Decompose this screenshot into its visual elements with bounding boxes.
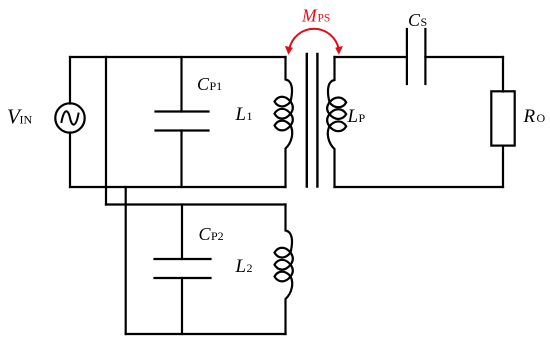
svg-text:M: M <box>301 6 318 26</box>
wire CP2 lower lead <box>181 278 183 334</box>
capacitor CP2 <box>155 259 211 278</box>
wire bottom bus of output loop <box>335 186 504 188</box>
inductor L2 spine <box>286 205 293 335</box>
wire top bus of primary loop <box>70 56 286 58</box>
svg-text:2: 2 <box>247 261 253 275</box>
inductor L2 petal 1 <box>275 248 291 258</box>
wire right vertical lower (RO bottom lead) <box>502 146 504 187</box>
inductor L1 petal 2 <box>275 109 291 119</box>
wire CP2 upper lead <box>181 205 183 260</box>
label LP <box>347 106 366 127</box>
wire CP1 lower lead <box>180 131 182 188</box>
label CP1 <box>197 74 222 94</box>
inductor LP (transformer secondary) spine <box>327 57 334 187</box>
voltage source VIN (AC) <box>55 103 84 132</box>
svg-text:1: 1 <box>247 109 253 123</box>
label L1 <box>235 104 253 125</box>
inductor LP petal 3 <box>330 121 347 131</box>
wire top bus of output loop left segment <box>335 56 407 58</box>
capacitor CP1 <box>156 112 209 131</box>
svg-text:P1: P1 <box>210 79 223 93</box>
transformer core bar right <box>316 54 318 187</box>
wire right vertical upper (RO top lead) <box>502 57 504 92</box>
label RO <box>523 106 546 127</box>
wire left vertical lower (source bottom lead) <box>69 133 71 188</box>
svg-text:R: R <box>523 106 536 127</box>
label VIN <box>7 105 32 129</box>
svg-text:PS: PS <box>318 13 331 25</box>
resistor RO <box>491 91 514 145</box>
svg-text:P2: P2 <box>211 229 224 243</box>
inductor L1 petal 3 <box>275 121 291 131</box>
inductor L2 petal 3 <box>275 272 291 282</box>
wire top bus of output loop right segment <box>425 56 503 58</box>
svg-text:C: C <box>408 10 421 30</box>
label MPS (red) <box>301 6 330 26</box>
wire bottom bus of primary loop <box>70 186 286 188</box>
wire CP1 upper lead <box>180 57 182 112</box>
wire series branch from top bus down to node B <box>105 57 107 205</box>
inductor L2 petal 2 <box>275 260 291 270</box>
label CS <box>408 10 427 30</box>
wire left vertical of bottom loop <box>125 187 127 334</box>
label L2 <box>235 256 253 277</box>
mutual inductance arrow MPS (red arc with two arrowheads) <box>285 29 343 55</box>
svg-text:O: O <box>537 111 546 125</box>
svg-text:S: S <box>421 15 428 29</box>
svg-text:C: C <box>199 224 212 244</box>
svg-text:L: L <box>235 256 247 277</box>
inductor L1 petal 1 <box>275 97 291 107</box>
inductor LP petal 2 <box>330 109 347 119</box>
wire left vertical upper (source top lead) <box>69 57 71 104</box>
svg-text:P: P <box>359 111 366 125</box>
wire bottom bus of bottom loop <box>126 333 286 335</box>
svg-text:L: L <box>347 106 359 127</box>
svg-text:IN: IN <box>20 113 33 127</box>
inductor L1 (transformer primary) spine <box>286 57 293 187</box>
inductor LP petal 1 <box>330 98 347 108</box>
svg-text:C: C <box>197 74 210 94</box>
transformer core bar left <box>306 54 308 187</box>
capacitor CS <box>407 29 426 84</box>
label CP2 <box>199 224 224 244</box>
wire top bus of secondary resonant loop <box>106 203 286 205</box>
svg-text:L: L <box>235 104 247 125</box>
